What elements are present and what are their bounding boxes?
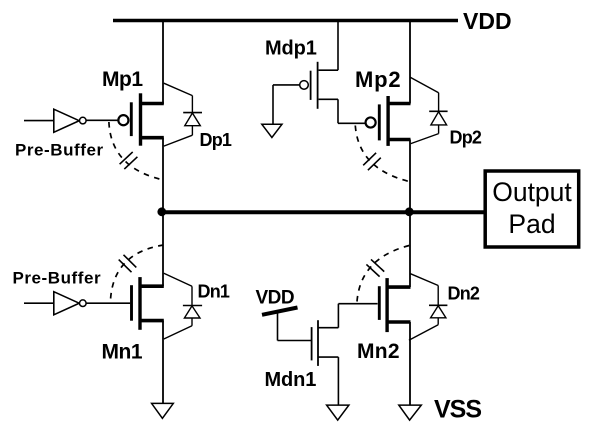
svg-text:VDD: VDD <box>463 8 512 34</box>
Mn1 label <box>102 341 143 364</box>
svg-text:Pre-Buffer: Pre-Buffer <box>15 141 104 160</box>
wire: Mn2 source to ground <box>409 322 411 405</box>
VDD tie label (Mdn1 gate) <box>256 287 295 308</box>
wire: output node to Mn2 drain <box>409 212 411 287</box>
ground (Mn2 source) <box>399 405 422 420</box>
svg-text:Dp2: Dp2 <box>450 128 482 148</box>
capacitance arc Mn2 (dashed gate-drain) <box>357 246 409 302</box>
inverter U1 (top pre-buffer) <box>24 109 86 132</box>
wire: VDD rail to Mp2 source <box>409 21 411 104</box>
Mn2 label <box>357 340 400 363</box>
diode Dp1 <box>164 83 202 146</box>
svg-text:Mdp1: Mdp1 <box>265 37 317 59</box>
Dp2 label <box>450 128 482 148</box>
svg-text:Mn2: Mn2 <box>357 340 400 363</box>
ground (Mn1 source) <box>152 403 174 418</box>
wire: Mdp1 gate to ground <box>273 85 300 124</box>
wire: output node to Mn1 drain <box>162 212 164 286</box>
svg-text:Dp1: Dp1 <box>200 130 232 150</box>
wire: Mdn1 drain to Mn2 gate <box>338 304 377 328</box>
svg-text:VDD: VDD <box>256 287 295 308</box>
svg-text:Mp2: Mp2 <box>355 67 401 92</box>
capacitance arc Mp1 (dashed gate-drain) <box>109 122 163 180</box>
transistor Mdn1 (NMOS, thin) <box>312 320 339 366</box>
wire: VDD rail to Mdp1 source <box>337 21 339 71</box>
Mp2 label <box>355 67 401 92</box>
Dp1 label <box>200 130 232 150</box>
inverter U2 (bottom pre-buffer) <box>24 292 86 315</box>
diode Dp2 <box>410 77 447 143</box>
node A (left output node) <box>157 207 166 216</box>
wire: Mdp1 drain to Mp2 gate <box>338 99 366 123</box>
svg-text:Mn1: Mn1 <box>102 341 143 364</box>
wire: VDD tie to Mdn1 gate <box>278 312 312 341</box>
wire: Mp1 drain to output node <box>162 138 164 212</box>
transistor Mn1 (NMOS, thick) <box>132 277 164 330</box>
wire: inverter U2 output to Mn1 gate <box>86 302 130 304</box>
VDD net label <box>463 8 512 34</box>
Output Pad box <box>485 171 579 247</box>
svg-text:Mp1: Mp1 <box>102 68 143 91</box>
svg-text:Pre-Buffer: Pre-Buffer <box>13 268 102 287</box>
VDD tie bar (Mdn1 gate) <box>262 308 298 315</box>
VDD power rail <box>113 19 458 23</box>
Mp1 label <box>102 68 143 91</box>
Pre-Buffer label (top) <box>15 141 104 160</box>
capacitance arc Mn1 (dashed gate-drain) <box>111 245 164 299</box>
Pre-Buffer label (bottom) <box>13 268 102 287</box>
svg-text:Output: Output <box>492 177 572 207</box>
wire: Mn1 source to ground <box>162 321 164 404</box>
wire: Mp2 drain to output node <box>409 140 411 213</box>
wire: VDD rail to Mp1 source <box>162 21 164 105</box>
transistor Mn2 (NMOS, thick) <box>379 278 410 332</box>
svg-text:Pad: Pad <box>508 209 555 239</box>
diode Dn1 <box>164 273 202 339</box>
wire: output net to pad <box>162 210 484 214</box>
wire: inverter U1 output to Mp1 gate <box>86 119 118 121</box>
svg-text:VSS: VSS <box>434 396 481 424</box>
ground (Mdp1 gate) <box>262 124 282 137</box>
diode Dn2 <box>409 274 448 341</box>
Mdn1 label <box>265 369 317 391</box>
svg-text:Dn1: Dn1 <box>198 281 230 301</box>
Dn1 label <box>198 281 230 301</box>
transistor Mp2 (PMOS, thick) <box>366 96 411 146</box>
svg-text:Dn2: Dn2 <box>448 284 480 304</box>
capacitance arc Mp2 (dashed gate-drain) <box>355 126 409 182</box>
node B (right output node) <box>405 207 414 216</box>
Mdp1 label <box>265 37 317 59</box>
transistor Mp1 (PMOS, thick) <box>118 93 163 145</box>
svg-text:Mdn1: Mdn1 <box>265 369 317 391</box>
VSS net label <box>434 396 481 424</box>
wire: Mdn1 source to ground <box>337 357 339 405</box>
transistor Mdp1 (PMOS, thin) <box>300 62 338 109</box>
Dn2 label <box>448 284 480 304</box>
ground (Mdn1 source) <box>327 405 349 420</box>
